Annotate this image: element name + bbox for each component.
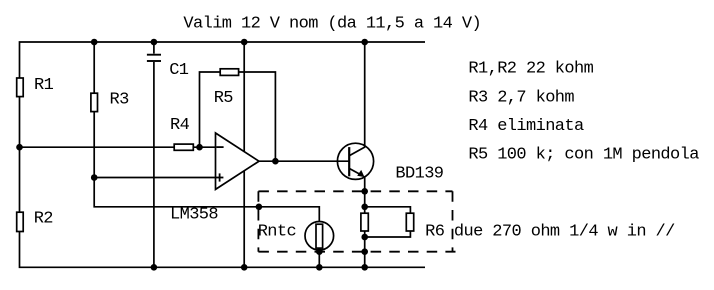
svg-text:Rntc: Rntc — [258, 222, 296, 241]
svg-text:R1,R2 22 kohm: R1,R2 22 kohm — [468, 60, 593, 79]
svg-text:LM358: LM358 — [170, 206, 218, 225]
svg-text:R3 2,7 kohm: R3 2,7 kohm — [468, 88, 574, 107]
svg-text:R4: R4 — [170, 116, 190, 135]
svg-text:R5 100 k; con 1M pendola: R5 100 k; con 1M pendola — [468, 146, 699, 165]
svg-text:R3: R3 — [110, 90, 130, 109]
svg-text:C1: C1 — [169, 61, 189, 80]
svg-text:R5: R5 — [214, 89, 234, 108]
svg-text:R2: R2 — [34, 210, 53, 229]
svg-text:BD139: BD139 — [395, 164, 443, 183]
svg-text:R6 due 270 ohm 1/4 w in //: R6 due 270 ohm 1/4 w in // — [425, 222, 675, 241]
svg-text:Valim 12 V nom (da 11,5 a 14 V: Valim 12 V nom (da 11,5 a 14 V) — [183, 14, 481, 33]
svg-text:R4 eliminata: R4 eliminata — [468, 117, 584, 136]
svg-text:R1: R1 — [34, 76, 54, 95]
